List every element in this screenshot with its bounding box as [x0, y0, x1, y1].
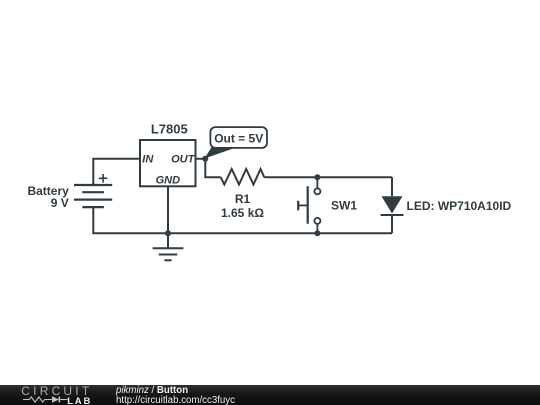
annotation callout Out = 5V box	[210, 127, 267, 148]
switch SW1 actuator	[307, 186, 309, 224]
battery B1 plates	[74, 184, 112, 186]
node switch bottom junction dot	[314, 230, 320, 236]
wire resistor to switch to LED	[264, 176, 392, 178]
LED D1 leads	[391, 177, 393, 233]
logo LAB text	[67, 396, 92, 405]
LED D1 triangle	[382, 196, 403, 213]
wire battery bottom / bottom rail	[93, 207, 392, 233]
op-amp U1 / regulator L7805 box	[140, 140, 196, 186]
LED D1 cathode bar	[381, 214, 404, 216]
wire GND pin to rail	[167, 187, 169, 233]
node switch top junction dot	[314, 174, 320, 180]
footer bar	[0, 385, 540, 405]
node OUT junction dot	[202, 156, 208, 162]
footer url line 2	[116, 395, 235, 405]
switch SW1 contacts	[314, 188, 320, 194]
switch SW1 wires	[316, 177, 318, 233]
resistor R1	[221, 169, 265, 185]
wire battery top to IN	[93, 159, 139, 185]
annotation callout Out = 5V tail	[205, 147, 237, 159]
node ground junction dot	[165, 230, 171, 236]
footer attribution line 1	[116, 385, 188, 396]
logo CIRCUIT text	[21, 384, 92, 398]
wire OUT pin	[196, 159, 221, 177]
battery plus sign	[99, 174, 108, 183]
ground	[167, 233, 169, 248]
